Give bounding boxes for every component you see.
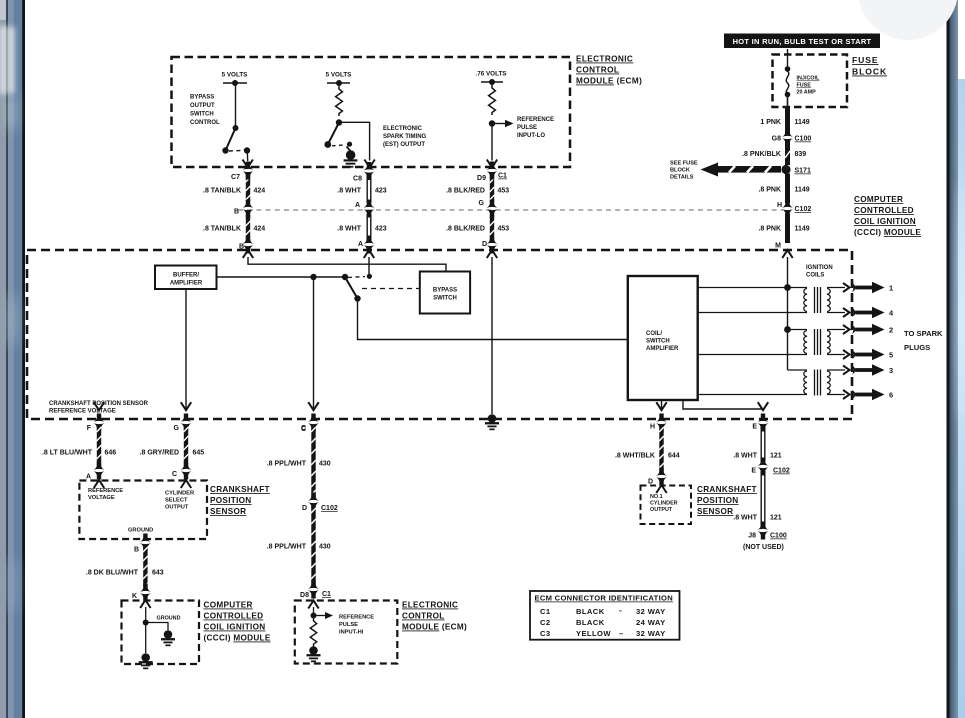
svg-text:CRANKSHAFT: CRANKSHAFT bbox=[697, 485, 757, 494]
svg-text:BYPASS: BYPASS bbox=[433, 288, 457, 294]
connector at spark output 3 bbox=[843, 366, 850, 375]
svg-text:OUTPUT: OUTPUT bbox=[650, 507, 673, 513]
wire 430 ppl/wht upper bbox=[267, 414, 331, 498]
pin A arrow into CCCI box bbox=[364, 250, 374, 258]
label COMPUTER CONTROLLED COIL IGNITION (CCCI) MODULE right bbox=[854, 195, 921, 237]
wire M feed to coils bbox=[784, 257, 791, 370]
svg-text:C1: C1 bbox=[498, 173, 507, 180]
crankshaft position sensor dashed box bbox=[79, 481, 207, 540]
spark plug arrow 6 bbox=[852, 389, 893, 401]
svg-text:G8: G8 bbox=[772, 136, 781, 143]
svg-text:(CCCI) MODULE: (CCCI) MODULE bbox=[854, 228, 921, 237]
wire EST output to C8 bbox=[339, 122, 370, 160]
pin C arrow at box bottom bbox=[301, 402, 319, 432]
svg-text:643: 643 bbox=[152, 570, 164, 577]
spark plug arrow 4 bbox=[852, 307, 894, 319]
pin D9 C1 arrow at ECM edge bbox=[477, 160, 507, 183]
node .76 VOLTS bbox=[475, 71, 506, 86]
switch EST (ECM internal) bbox=[324, 123, 344, 148]
svg-text:.8 WHT: .8 WHT bbox=[337, 188, 361, 195]
svg-text:NO.1: NO.1 bbox=[650, 494, 663, 500]
svg-text:–: – bbox=[619, 629, 623, 638]
pin H arrow at box bottom bbox=[650, 402, 667, 430]
label bypass output switch control bbox=[190, 95, 220, 127]
pin B arrow into CCCI box bbox=[243, 250, 253, 258]
svg-text:H: H bbox=[777, 202, 782, 209]
connector at spark output 4 bbox=[843, 308, 850, 317]
svg-text:D: D bbox=[302, 505, 307, 512]
label CRANKSHAFT POSITION SENSOR (left) bbox=[210, 485, 270, 516]
svg-text:REFERENCE VOLTAGE: REFERENCE VOLTAGE bbox=[49, 409, 116, 415]
ground net inside CCCI module bbox=[143, 607, 181, 653]
svg-text:PULSE: PULSE bbox=[517, 125, 537, 131]
svg-text:INPUT-LO: INPUT-LO bbox=[517, 133, 545, 139]
pin A arrow into sensor bbox=[94, 480, 104, 488]
svg-text:J8: J8 bbox=[748, 533, 756, 540]
svg-text:.8 PPL/WHT: .8 PPL/WHT bbox=[267, 544, 307, 551]
svg-text:D9: D9 bbox=[477, 175, 486, 182]
wire 644 wht/blk bbox=[615, 414, 680, 486]
svg-text:TO SPARK: TO SPARK bbox=[904, 329, 943, 338]
svg-text:A: A bbox=[358, 241, 363, 248]
svg-text:.8 WHT: .8 WHT bbox=[337, 226, 361, 233]
spark plug arrow 1 bbox=[852, 282, 893, 294]
dashed linkage to bypass switch bbox=[362, 288, 420, 290]
svg-text:20 AMP: 20 AMP bbox=[797, 90, 817, 96]
svg-text:1149: 1149 bbox=[795, 226, 810, 233]
node EST junction bbox=[336, 119, 342, 125]
svg-text:COIL/: COIL/ bbox=[646, 331, 662, 337]
svg-text:C100: C100 bbox=[795, 136, 812, 143]
svg-text:5 VOLTS: 5 VOLTS bbox=[222, 72, 248, 79]
wire amp output 2 bbox=[698, 312, 807, 314]
svg-text:32 WAY: 32 WAY bbox=[636, 629, 666, 638]
svg-text:1 PNK: 1 PNK bbox=[760, 119, 781, 126]
node 5 VOLTS (EST branch) bbox=[326, 72, 352, 87]
svg-text:PLUGS: PLUGS bbox=[904, 343, 930, 352]
svg-text:.8 BLK/RED: .8 BLK/RED bbox=[446, 188, 485, 195]
svg-text:.76 VOLTS: .76 VOLTS bbox=[475, 71, 506, 78]
svg-text:(NOT USED): (NOT USED) bbox=[743, 544, 784, 551]
label reference pulse input-lo bbox=[517, 117, 554, 139]
svg-text:CYLINDER: CYLINDER bbox=[650, 501, 678, 507]
svg-text:CONTROL: CONTROL bbox=[576, 66, 619, 75]
arrow reference pulse input-lo bbox=[492, 120, 514, 127]
svg-text:VOLTAGE: VOLTAGE bbox=[88, 495, 115, 501]
svg-text:E: E bbox=[752, 424, 757, 431]
svg-text:OUTPUT: OUTPUT bbox=[190, 103, 215, 109]
wire 424 tan/blk lower bbox=[203, 215, 265, 254]
svg-text:(EST) OUTPUT: (EST) OUTPUT bbox=[383, 142, 425, 148]
coil/switch amplifier box U2 bbox=[628, 276, 698, 400]
svg-text:E: E bbox=[751, 468, 756, 475]
svg-text:CRANKSHAFT POSITION SENSOR: CRANKSHAFT POSITION SENSOR bbox=[49, 401, 149, 407]
connector at spark output 2 bbox=[843, 325, 850, 334]
pin M arrow into CCCI box bbox=[782, 250, 792, 258]
svg-text:H: H bbox=[650, 424, 655, 431]
svg-text:.8 BLK/RED: .8 BLK/RED bbox=[446, 226, 485, 233]
resistor (EST pull-up) bbox=[336, 83, 343, 116]
svg-text:.8 PNK: .8 PNK bbox=[758, 226, 781, 233]
svg-text:G: G bbox=[174, 425, 180, 432]
left window border bar bbox=[0, 0, 25, 718]
svg-text:G: G bbox=[479, 200, 485, 207]
banner HOT IN RUN, BULB TEST OR START bbox=[724, 34, 880, 49]
junction G at C102 bbox=[479, 200, 498, 218]
svg-text:COIL IGNITION: COIL IGNITION bbox=[854, 217, 916, 226]
svg-text:BLOCK: BLOCK bbox=[670, 168, 690, 174]
label ELECTRONIC CONTROL MODULE (ECM) bottom bbox=[402, 601, 467, 632]
svg-text:A: A bbox=[355, 202, 360, 209]
wire to D9 bbox=[491, 124, 493, 161]
svg-text:430: 430 bbox=[319, 544, 331, 551]
svg-text:C100: C100 bbox=[770, 533, 787, 540]
svg-text:PULSE: PULSE bbox=[339, 622, 358, 628]
svg-text:S171: S171 bbox=[795, 168, 811, 175]
svg-text:ELECTRONIC: ELECTRONIC bbox=[402, 601, 458, 610]
wire 645 gry/red bbox=[140, 414, 205, 480]
svg-text:INPUT-HI: INPUT-HI bbox=[339, 630, 364, 636]
wire 646 lt blu/wht bbox=[42, 414, 116, 481]
connector at spark output 5 bbox=[843, 350, 850, 359]
svg-text:CONTROL: CONTROL bbox=[402, 612, 445, 621]
faint watermark circle top right bbox=[858, 0, 958, 40]
svg-text:C: C bbox=[172, 471, 177, 478]
svg-text:6: 6 bbox=[889, 391, 893, 400]
wire amp output 3 bbox=[698, 354, 807, 356]
svg-text:C102: C102 bbox=[321, 505, 338, 512]
svg-text:A: A bbox=[86, 474, 91, 481]
ground symbol (ECM) bbox=[307, 646, 321, 662]
svg-text:HOT IN RUN, BULB TEST OR START: HOT IN RUN, BULB TEST OR START bbox=[733, 37, 872, 46]
svg-text:.8 WHT/BLK: .8 WHT/BLK bbox=[615, 453, 655, 460]
svg-text:CONTROLLED: CONTROLLED bbox=[854, 206, 914, 215]
svg-text:3: 3 bbox=[889, 366, 893, 375]
svg-text:.8 LT BLU/WHT: .8 LT BLU/WHT bbox=[42, 450, 93, 457]
svg-text:SEE FUSE: SEE FUSE bbox=[670, 161, 698, 167]
junction A at C102 bbox=[355, 200, 375, 218]
pin G arrow at box bottom bbox=[174, 402, 192, 432]
svg-text:F: F bbox=[87, 425, 92, 432]
svg-text:24 WAY: 24 WAY bbox=[636, 618, 666, 627]
svg-text:SENSOR: SENSOR bbox=[210, 507, 246, 516]
svg-text:423: 423 bbox=[375, 188, 387, 195]
CCCI module dashed box (large) bbox=[27, 250, 852, 419]
wire 1149 pnk (S171 to C102) bbox=[758, 174, 809, 204]
label CRANKSHAFT POSITION SENSOR (right) bbox=[697, 485, 757, 516]
ground (D wire, on box edge) bbox=[485, 414, 499, 430]
svg-text:.8 TAN/BLK: .8 TAN/BLK bbox=[203, 188, 241, 195]
wire 1149 pnk (fuse to C100) bbox=[760, 107, 809, 134]
svg-text:B: B bbox=[134, 547, 139, 554]
svg-text:32 WAY: 32 WAY bbox=[636, 607, 666, 616]
svg-text:430: 430 bbox=[319, 461, 331, 468]
svg-text:BYPASS: BYPASS bbox=[190, 95, 214, 101]
pin C7 arrow at ECM edge bbox=[231, 160, 253, 182]
wire 453 blk/red upper bbox=[446, 162, 509, 203]
svg-text:CRANKSHAFT: CRANKSHAFT bbox=[210, 485, 270, 494]
svg-text:BLACK: BLACK bbox=[576, 618, 605, 627]
svg-text:C1: C1 bbox=[540, 607, 551, 616]
CCCI module dashed box (bottom) bbox=[122, 601, 200, 665]
svg-text:644: 644 bbox=[668, 453, 680, 460]
wire 423 wht lower (hollow) bbox=[337, 214, 387, 254]
svg-text:D: D bbox=[482, 241, 487, 248]
svg-text:COILS: COILS bbox=[806, 273, 824, 279]
svg-text:1149: 1149 bbox=[795, 187, 810, 194]
label TO SPARK PLUGS bbox=[904, 329, 943, 352]
svg-text:BUFFER/: BUFFER/ bbox=[173, 273, 199, 279]
svg-text:646: 646 bbox=[105, 450, 117, 457]
svg-text:.8 PPL/WHT: .8 PPL/WHT bbox=[267, 461, 307, 468]
svg-text:C: C bbox=[301, 426, 306, 433]
svg-text:C7: C7 bbox=[231, 174, 240, 181]
svg-text:2: 2 bbox=[889, 326, 893, 335]
connector at spark output 6 bbox=[843, 390, 850, 399]
splice S171 bbox=[781, 165, 811, 175]
wire 121 wht lower (hollow) bbox=[733, 471, 782, 527]
svg-text:ELECTRONIC: ELECTRONIC bbox=[383, 126, 423, 132]
pin D arrow into no.1 cylinder box bbox=[656, 485, 666, 493]
svg-text:C3: C3 bbox=[540, 629, 551, 638]
svg-text:SENSOR: SENSOR bbox=[697, 507, 733, 516]
wire bbox=[235, 83, 237, 128]
svg-text:YELLOW: YELLOW bbox=[576, 629, 611, 638]
svg-text:(CCCI) MODULE: (CCCI) MODULE bbox=[204, 634, 271, 643]
switch bypass (module internal) bbox=[342, 274, 372, 302]
resistor (reference pull) bbox=[489, 82, 496, 115]
svg-text:COIL IGNITION: COIL IGNITION bbox=[204, 623, 266, 632]
svg-text:GROUND: GROUND bbox=[128, 528, 153, 534]
svg-text:D8: D8 bbox=[300, 592, 309, 599]
svg-text:BLOCK: BLOCK bbox=[852, 67, 887, 77]
spark plug arrow 2 bbox=[852, 324, 893, 336]
switch bypass output (ECM internal) bbox=[222, 125, 250, 161]
wire 423 wht upper (hollow) bbox=[337, 162, 387, 203]
fuse INJ/COIL 20A bbox=[785, 49, 820, 108]
right window border bar bbox=[947, 0, 965, 718]
pin D8 arrow into ECM bbox=[308, 601, 318, 609]
wire amp output 1 bbox=[698, 287, 807, 289]
svg-text:AMPLIFIER: AMPLIFIER bbox=[170, 281, 203, 287]
fuse block dashed box bbox=[773, 55, 848, 108]
svg-text:COMPUTER: COMPUTER bbox=[204, 601, 253, 610]
svg-text:POSITION: POSITION bbox=[210, 496, 252, 505]
node reference pulse junction bbox=[489, 120, 495, 126]
svg-text:REFERENCE: REFERENCE bbox=[339, 615, 374, 621]
wire 430 ppl/wht lower bbox=[267, 506, 331, 599]
svg-text:5: 5 bbox=[889, 351, 893, 360]
svg-text:K: K bbox=[132, 593, 137, 600]
svg-text:645: 645 bbox=[193, 450, 205, 457]
pin D arrow into CCCI box bbox=[487, 250, 497, 258]
svg-text:MODULE (ECM): MODULE (ECM) bbox=[576, 77, 642, 86]
pin C8 arrow at ECM edge bbox=[353, 160, 375, 183]
label crankshaft position sensor reference voltage bbox=[49, 401, 149, 415]
junction J8 C100 (not used) bbox=[743, 522, 787, 552]
junction H C102 bbox=[777, 200, 811, 218]
ECM dashed box (top) bbox=[172, 57, 571, 167]
svg-text:C1: C1 bbox=[322, 591, 331, 598]
wire coil2 feed bbox=[788, 329, 808, 331]
svg-text:C102: C102 bbox=[795, 206, 812, 213]
svg-text:IGNITION: IGNITION bbox=[806, 265, 833, 271]
arrow SEE FUSE BLOCK DETAILS bbox=[670, 161, 781, 181]
junction D C102 bbox=[302, 493, 338, 513]
svg-text:5 VOLTS: 5 VOLTS bbox=[326, 72, 352, 79]
no.1 cylinder output dashed box bbox=[641, 486, 692, 525]
wire switch to coil amplifier bbox=[358, 299, 628, 340]
spark plug arrow 5 bbox=[852, 349, 893, 361]
svg-text:POSITION: POSITION bbox=[697, 496, 739, 505]
svg-text:REFERENCE: REFERENCE bbox=[517, 117, 554, 123]
wire 424 tan/blk upper bbox=[203, 162, 265, 203]
wire 121 wht upper (hollow) bbox=[733, 414, 782, 463]
pin E arrow at box bottom bbox=[752, 402, 768, 430]
connector line C102 (dashed) bbox=[238, 209, 783, 211]
svg-text:424: 424 bbox=[254, 226, 266, 233]
label ELECTRONIC CONTROL MODULE (ECM) top bbox=[576, 55, 642, 86]
svg-text:COMPUTER: COMPUTER bbox=[854, 195, 903, 204]
junction G8 C100 bbox=[772, 129, 812, 147]
bypass switch box S1 bbox=[420, 272, 470, 314]
svg-text:SELECT: SELECT bbox=[165, 498, 188, 504]
svg-text:.8 TAN/BLK: .8 TAN/BLK bbox=[203, 226, 241, 233]
connector at spark output 1 bbox=[843, 283, 850, 292]
svg-text:ELECTRONIC: ELECTRONIC bbox=[576, 55, 633, 64]
wire A to switch contact bbox=[368, 257, 370, 274]
svg-text:MODULE (ECM): MODULE (ECM) bbox=[402, 623, 467, 632]
wire G down from buffer bbox=[185, 289, 187, 411]
svg-text:D: D bbox=[648, 479, 653, 486]
wire 839 pnk/blk bbox=[742, 142, 806, 166]
svg-text:423: 423 bbox=[375, 226, 387, 233]
wire B feed to bypass switch bbox=[248, 257, 446, 271]
svg-text:.8 PNK/BLK: .8 PNK/BLK bbox=[742, 151, 781, 158]
wire 1149 pnk (C102 to M) bbox=[758, 214, 809, 250]
svg-text:453: 453 bbox=[498, 188, 510, 195]
svg-text:ECM CONNECTOR IDENTIFICATION: ECM CONNECTOR IDENTIFICATION bbox=[535, 594, 673, 603]
wire coil3 feed bbox=[788, 369, 808, 371]
svg-text:C8: C8 bbox=[353, 176, 362, 183]
svg-text:SPARK TIMING: SPARK TIMING bbox=[383, 134, 427, 140]
svg-text:OUTPUT: OUTPUT bbox=[165, 505, 189, 511]
svg-text:1: 1 bbox=[889, 284, 893, 293]
wire 453 blk/red lower bbox=[446, 215, 509, 254]
node C junction bbox=[310, 274, 316, 280]
node 5 VOLTS (bypass branch) bbox=[222, 72, 248, 87]
reference pulse input-hi net bbox=[311, 607, 375, 636]
ground symbol (branch) bbox=[161, 630, 175, 646]
svg-text:CYLINDER: CYLINDER bbox=[165, 491, 194, 497]
svg-text:M: M bbox=[775, 243, 781, 250]
pin F arrow at box bottom bbox=[87, 402, 104, 432]
pin C arrow into sensor bbox=[181, 480, 191, 488]
svg-text:CONTROLLED: CONTROLLED bbox=[204, 612, 264, 621]
svg-text:SWITCH: SWITCH bbox=[190, 112, 214, 118]
label electronic spark timing bbox=[383, 126, 427, 148]
svg-text:REFERENCE: REFERENCE bbox=[88, 488, 123, 494]
svg-text:.8 PNK: .8 PNK bbox=[758, 187, 781, 194]
ground symbol (main, on box edge) bbox=[139, 653, 153, 669]
wire D down to ground bbox=[491, 257, 493, 414]
svg-text:GROUND: GROUND bbox=[157, 616, 181, 622]
svg-text:SWITCH: SWITCH bbox=[433, 296, 457, 302]
svg-text:AMPLIFIER: AMPLIFIER bbox=[646, 346, 679, 352]
ignition coil T1 bbox=[804, 287, 845, 313]
EST pickup contact symbol bbox=[344, 142, 358, 168]
svg-text:424: 424 bbox=[254, 188, 266, 195]
label FUSE BLOCK bbox=[852, 55, 887, 77]
svg-text:B: B bbox=[234, 209, 239, 216]
svg-text:INJ/COIL: INJ/COIL bbox=[797, 76, 820, 82]
svg-text:839: 839 bbox=[795, 151, 807, 158]
label COMPUTER CONTROLLED COIL IGNITION (CCCI) MODULE (bottom) bbox=[204, 601, 271, 643]
ignition coil T3 bbox=[804, 370, 845, 396]
ignition coil T2 bbox=[804, 329, 845, 355]
buffer/amplifier box U1 bbox=[155, 266, 217, 290]
label IGNITION COILS bbox=[806, 265, 833, 279]
wire C down bbox=[313, 277, 315, 411]
svg-text:BLACK: BLACK bbox=[576, 607, 605, 616]
svg-text:.8 GRY/RED: .8 GRY/RED bbox=[140, 450, 179, 457]
pin K arrow into CCCI module bbox=[140, 600, 150, 608]
wire amp output 4 bbox=[698, 394, 807, 396]
wire buffer output bbox=[217, 276, 346, 278]
svg-text:C102: C102 bbox=[773, 468, 790, 475]
wire 643 dk blu/wht bbox=[86, 534, 164, 602]
spark plug arrow 3 bbox=[852, 364, 893, 376]
svg-text:453: 453 bbox=[498, 226, 510, 233]
svg-text:121: 121 bbox=[770, 515, 782, 522]
junction B at C102 bbox=[234, 200, 254, 218]
svg-text:.8 WHT: .8 WHT bbox=[733, 515, 757, 522]
svg-text:SWITCH: SWITCH bbox=[646, 339, 670, 345]
junction E C102 bbox=[751, 458, 790, 476]
svg-text:C2: C2 bbox=[540, 618, 551, 627]
svg-text:.8 WHT: .8 WHT bbox=[733, 453, 757, 460]
svg-text:1149: 1149 bbox=[795, 119, 810, 126]
svg-text:DETAILS: DETAILS bbox=[670, 175, 694, 181]
svg-text:FUSE: FUSE bbox=[852, 55, 879, 65]
ECM dashed box (bottom) bbox=[295, 601, 398, 664]
ECM connector identification table bbox=[530, 591, 680, 640]
svg-text:FUSE: FUSE bbox=[797, 83, 812, 89]
svg-text:.8 DK BLU/WHT: .8 DK BLU/WHT bbox=[86, 570, 139, 577]
svg-text:CONTROL: CONTROL bbox=[190, 120, 220, 126]
resistor (input-hi) bbox=[310, 619, 316, 647]
wire amplifier outputs to H and E bbox=[662, 400, 764, 411]
svg-text:121: 121 bbox=[770, 453, 782, 460]
